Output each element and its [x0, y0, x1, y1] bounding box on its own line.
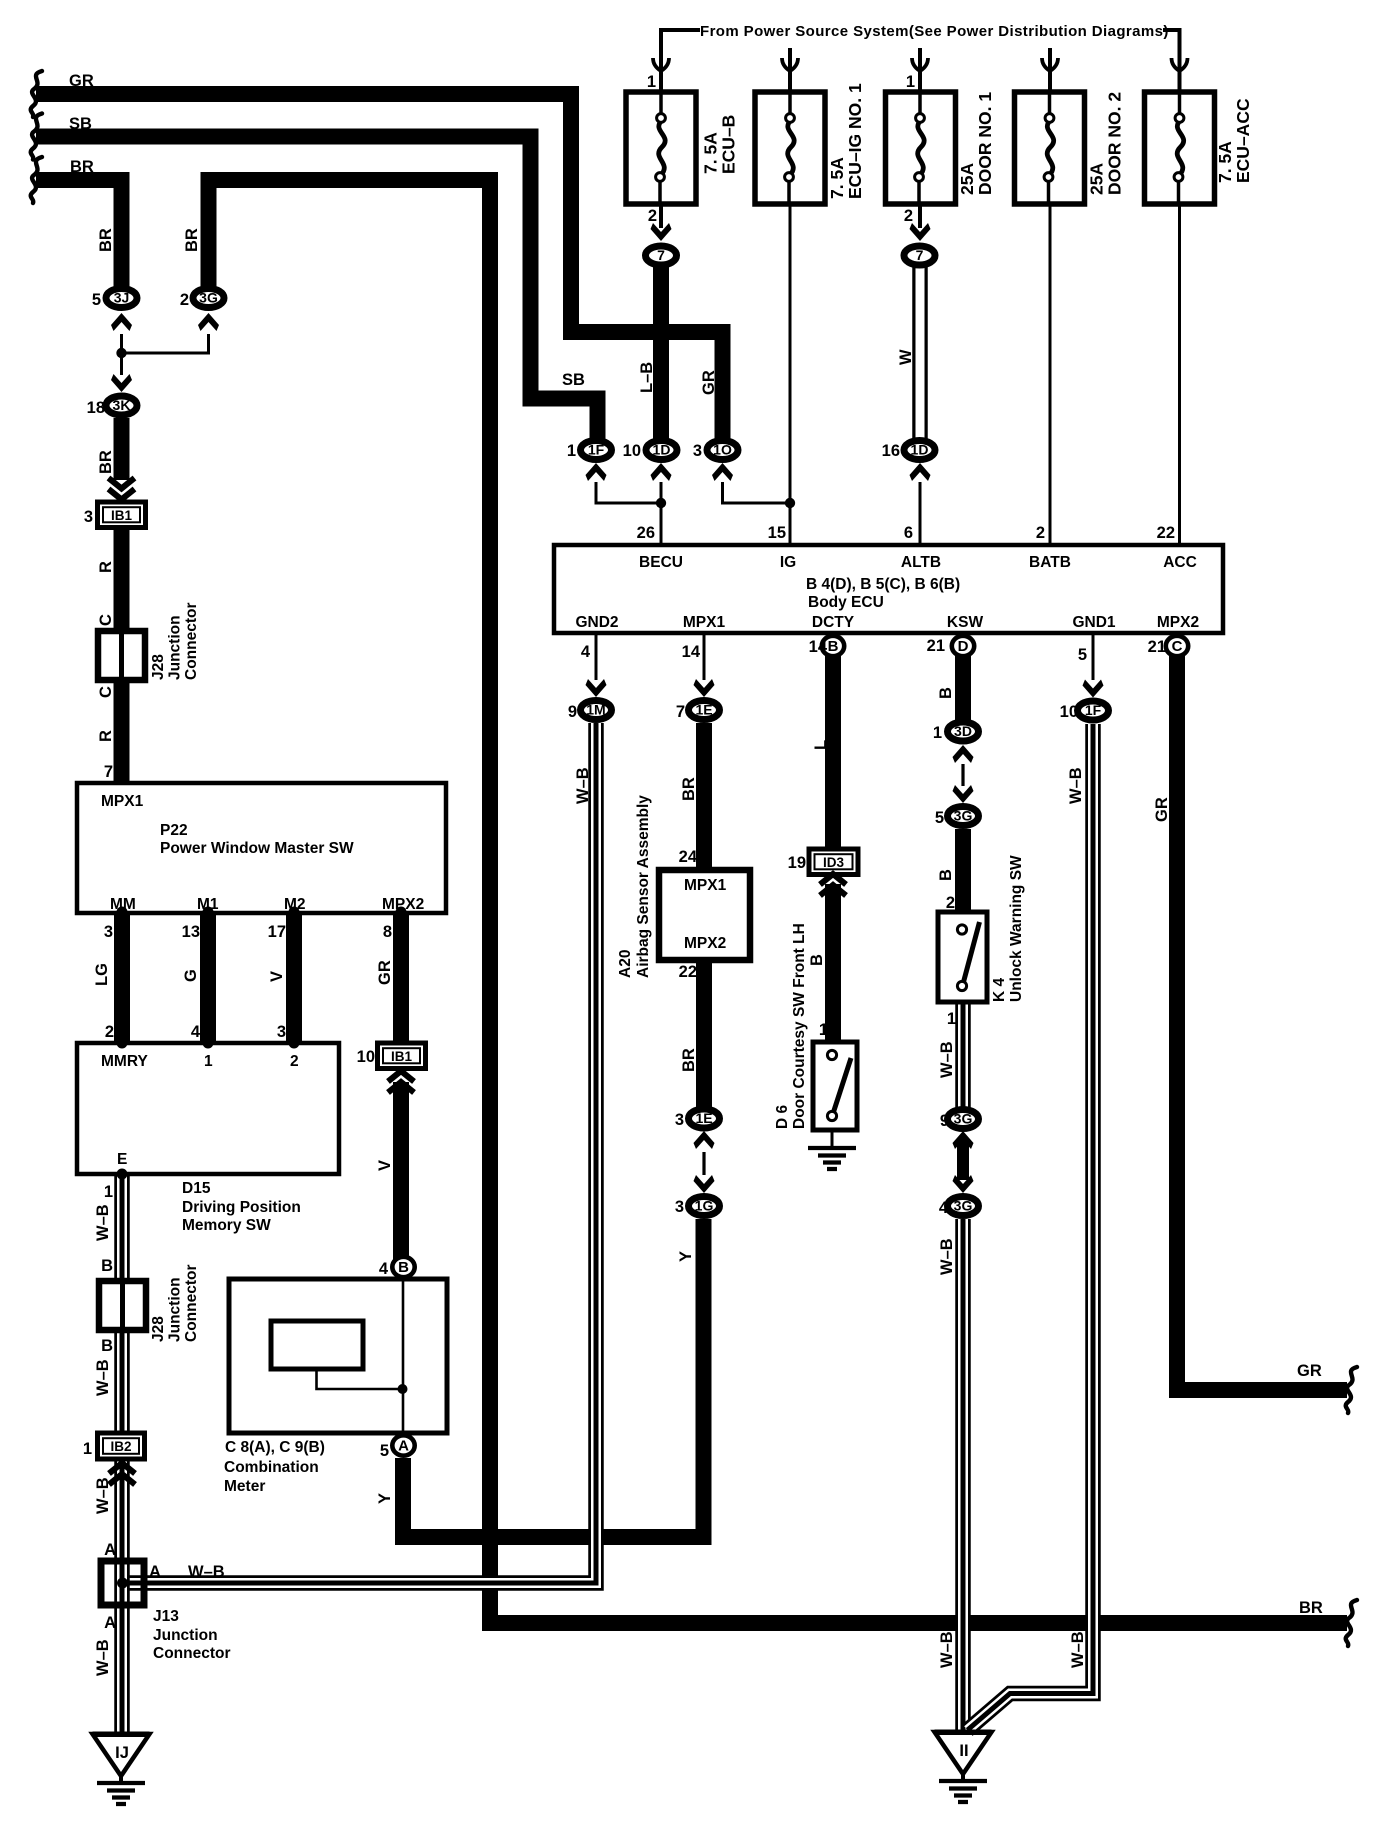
- svg-text:W–B: W–B: [94, 1639, 112, 1676]
- svg-text:1F: 1F: [1085, 702, 1102, 718]
- svg-text:C: C: [1172, 638, 1183, 655]
- svg-text:ID3: ID3: [823, 855, 845, 870]
- svg-text:R: R: [97, 561, 115, 573]
- svg-text:SB: SB: [69, 115, 92, 133]
- svg-text:L–B: L–B: [638, 362, 656, 393]
- arrow into connector 3G: [198, 313, 219, 331]
- connector 1E MPX1: [689, 701, 720, 720]
- svg-text:Combination: Combination: [224, 1459, 319, 1476]
- break symbol BR wire right: [1346, 1600, 1357, 1646]
- svg-text:A: A: [398, 1438, 409, 1455]
- connector 3D: [948, 722, 979, 741]
- svg-text:1D: 1D: [911, 442, 929, 458]
- connector A combination meter pin 5: [392, 1435, 414, 1455]
- arrow into connector 3G pin 4: [953, 1175, 974, 1193]
- wire connector 1E to connector 1G link: [702, 1152, 705, 1175]
- svg-text:5: 5: [92, 291, 101, 309]
- svg-text:B: B: [937, 687, 955, 699]
- svg-text:BR: BR: [70, 158, 94, 176]
- wire fuse DOOR NO.1 input shaft: [918, 48, 922, 92]
- wire V P22 pin M2 to memory SW pin 3: [286, 912, 302, 1043]
- fuse 25A DOOR NO.2: [1015, 92, 1085, 204]
- svg-text:R: R: [97, 730, 115, 742]
- svg-text:22: 22: [679, 963, 697, 981]
- svg-text:W: W: [897, 349, 915, 365]
- arrow into connector 3K: [111, 374, 132, 392]
- wire W-B unlock warning SW pin 1 to connector 3G: [955, 1002, 971, 1110]
- svg-text:B: B: [101, 1257, 113, 1275]
- connector 1M GND2: [581, 701, 612, 720]
- fuse 7.5A ECU-B: [626, 92, 696, 204]
- wire connector 1D to Body ECU pin 26 (BECU): [660, 482, 663, 545]
- svg-text:V: V: [376, 1160, 394, 1171]
- svg-text:26: 26: [637, 524, 655, 542]
- wire GR feed from power source, stepping down to connector 1O: [36, 94, 723, 441]
- svg-text:22: 22: [1157, 524, 1175, 542]
- svg-text:ECU–B: ECU–B: [719, 115, 739, 174]
- svg-text:7: 7: [104, 763, 113, 781]
- svg-text:A: A: [104, 1541, 116, 1559]
- svg-text:Meter: Meter: [224, 1478, 265, 1495]
- svg-text:SB: SB: [562, 371, 585, 389]
- svg-text:4: 4: [939, 1199, 949, 1217]
- svg-text:25A: 25A: [957, 163, 977, 195]
- svg-text:ECU–IG NO. 1: ECU–IG NO. 1: [845, 83, 865, 199]
- svg-text:GR: GR: [700, 370, 718, 395]
- ground IJ: [93, 1734, 150, 1783]
- svg-text:BR: BR: [680, 777, 698, 801]
- svg-text:MPX1: MPX1: [684, 877, 727, 894]
- svg-text:1: 1: [567, 442, 576, 460]
- D15 Driving Position Memory SW box: [77, 1043, 339, 1174]
- svg-text:Junction: Junction: [153, 1627, 218, 1644]
- svg-text:6: 6: [904, 524, 913, 542]
- double chevron arrow out of IB2: [109, 1463, 135, 1485]
- wire fuse ECU-IG NO.1 to Body ECU pin 15 (IG): [789, 204, 792, 545]
- svg-text:3G: 3G: [954, 1111, 973, 1127]
- svg-text:W–B: W–B: [94, 1359, 112, 1396]
- svg-text:18: 18: [87, 399, 105, 417]
- svg-text:3: 3: [104, 923, 113, 941]
- svg-text:MPX2: MPX2: [1157, 614, 1199, 631]
- K4 Unlock Warning SW box: [938, 912, 987, 1002]
- wire inside combination meter vertical: [402, 1279, 405, 1434]
- wire SB feed to connector 1F: [36, 137, 598, 442]
- wire W-B J28 to IB2: [114, 1328, 130, 1435]
- wire Body ECU GND2 pin 4 stub: [595, 633, 598, 680]
- connector 3J: [106, 289, 137, 308]
- arrow into fuse DOOR NO.1: [912, 58, 928, 71]
- svg-text:7: 7: [657, 247, 665, 263]
- svg-text:4: 4: [581, 643, 591, 661]
- svg-text:7: 7: [676, 703, 685, 721]
- ground below door courtesy SW: [808, 1148, 856, 1169]
- svg-text:Connector: Connector: [183, 1265, 200, 1343]
- svg-text:1E: 1E: [695, 702, 712, 718]
- svg-text:25A: 25A: [1087, 163, 1107, 195]
- wire W-B connector 1F down, jog left to ground II: [968, 724, 1094, 1730]
- svg-text:ACC: ACC: [1163, 554, 1197, 571]
- svg-text:Connector: Connector: [183, 603, 200, 681]
- svg-text:3G: 3G: [954, 1198, 973, 1214]
- svg-text:2: 2: [648, 207, 657, 225]
- wire Body ECU GND1 pin 5 stub: [1092, 633, 1095, 680]
- svg-text:J28: J28: [150, 654, 167, 680]
- svg-text:19: 19: [788, 854, 806, 872]
- svg-text:B: B: [808, 954, 826, 966]
- connector 1F GND1: [1078, 701, 1109, 720]
- wire Body ECU MPX1 pin 14 stub: [703, 633, 706, 680]
- svg-text:2: 2: [1036, 524, 1045, 542]
- svg-text:3G: 3G: [954, 808, 973, 824]
- connector IB2: [98, 1433, 145, 1459]
- svg-text:1: 1: [933, 724, 942, 742]
- connector 1G: [689, 1197, 720, 1216]
- svg-text:7. 5A: 7. 5A: [1215, 141, 1235, 183]
- connector 3G KSW: [948, 807, 979, 826]
- svg-text:C: C: [97, 686, 115, 698]
- svg-text:DOOR NO. 2: DOOR NO. 2: [1105, 92, 1125, 195]
- svg-text:D 6: D 6: [774, 1105, 791, 1130]
- arrow fuse ECU-B pin 2 into connector 7: [651, 223, 672, 241]
- wire fuse ECU-ACC input shaft: [1178, 45, 1182, 92]
- wire R IB1 through J28 to P22 pin 7 (MPX1): [114, 528, 130, 784]
- connector 1E below airbag assembly: [689, 1109, 720, 1128]
- svg-text:10: 10: [623, 442, 641, 460]
- svg-text:Connector: Connector: [153, 1645, 231, 1662]
- break symbol GR wire left: [31, 71, 42, 117]
- svg-text:BR: BR: [680, 1048, 698, 1072]
- connector B combination meter pin 4: [392, 1257, 414, 1277]
- svg-text:G: G: [182, 969, 200, 982]
- svg-text:14: 14: [809, 638, 828, 656]
- wire LG P22 pin MM to MMRY pin 2: [114, 912, 130, 1043]
- svg-text:3: 3: [84, 508, 93, 526]
- arrow into connector 1E lower: [694, 1131, 715, 1149]
- wire B connector 3G to unlock warning SW pin 2: [955, 829, 971, 914]
- svg-text:1: 1: [83, 1440, 92, 1458]
- break symbol SB wire left: [31, 114, 42, 160]
- arrow into connector 1G: [694, 1175, 715, 1193]
- svg-text:L: L: [812, 740, 830, 750]
- svg-text:3K: 3K: [113, 397, 131, 413]
- wire BR airbag sensor MPX2 pin 22 to connector 1E: [696, 956, 712, 1109]
- svg-text:16: 16: [882, 442, 900, 460]
- svg-text:Memory SW: Memory SW: [182, 1217, 271, 1234]
- junction connector J28 upper: [98, 631, 145, 680]
- svg-text:MPX2: MPX2: [382, 896, 424, 913]
- connector 7 below fuse ECU-B: [646, 246, 677, 265]
- arrow into fuse ECU-IG NO.1: [782, 58, 798, 71]
- svg-text:3D: 3D: [954, 723, 972, 739]
- svg-text:5: 5: [380, 1442, 389, 1460]
- wire W fuse DOOR NO.1 connector 7 to connector 1D: [912, 262, 928, 441]
- wire fuse ECU-B input shaft: [659, 45, 663, 92]
- svg-text:Airbag Sensor Assembly: Airbag Sensor Assembly: [635, 795, 652, 978]
- svg-text:13: 13: [182, 923, 200, 941]
- svg-text:IJ: IJ: [115, 1744, 129, 1762]
- svg-text:MPX1: MPX1: [101, 793, 144, 810]
- arrow fuse DOOR NO.1 pin 2 into connector 7: [910, 223, 931, 241]
- svg-text:1G: 1G: [695, 1198, 714, 1214]
- svg-text:W–B: W–B: [938, 1238, 956, 1275]
- svg-text:2: 2: [105, 1023, 114, 1041]
- wire node below 1O to IG junction: [723, 482, 791, 503]
- fuse 7.5A ECU-ACC: [1145, 92, 1215, 204]
- wire fuse DOOR NO.2 input shaft: [1048, 48, 1052, 92]
- svg-text:15: 15: [768, 524, 786, 542]
- svg-text:B: B: [101, 1337, 113, 1355]
- svg-text:BATB: BATB: [1029, 554, 1071, 571]
- arrow into connector 1D ALTB: [910, 463, 931, 481]
- wire connector 1D to Body ECU pin 6 (ALTB): [919, 482, 922, 545]
- wire BR connector 1E to airbag sensor MPX1 pin 24: [696, 723, 712, 870]
- svg-text:W–B: W–B: [938, 1041, 956, 1078]
- connector 1F (SB wire): [581, 441, 612, 460]
- svg-text:II: II: [959, 1742, 968, 1760]
- svg-text:21: 21: [927, 637, 945, 655]
- connector IB1 right: [378, 1043, 426, 1069]
- svg-text:A20: A20: [617, 950, 634, 978]
- svg-text:GND1: GND1: [1072, 614, 1115, 631]
- svg-text:IB1: IB1: [391, 1049, 413, 1064]
- svg-text:Junction: Junction: [167, 1277, 184, 1342]
- svg-text:C 8(A), C 9(B): C 8(A), C 9(B): [225, 1439, 325, 1456]
- svg-text:A: A: [149, 1563, 161, 1581]
- svg-text:J28: J28: [150, 1316, 167, 1342]
- fuse 25A DOOR NO.1: [886, 92, 956, 204]
- svg-text:IG: IG: [780, 554, 796, 571]
- break symbol GR wire right: [1346, 1367, 1357, 1413]
- svg-text:17: 17: [268, 923, 286, 941]
- double chevron arrow out of ID3: [820, 874, 846, 896]
- svg-text:14: 14: [682, 643, 701, 661]
- svg-text:W–B: W–B: [1067, 767, 1085, 804]
- arrow into connector 3J: [111, 313, 132, 331]
- wire W-B IB2 through J13 to ground IJ: [114, 1459, 130, 1734]
- arrow into connector 3D: [953, 745, 974, 763]
- svg-text:10: 10: [357, 1048, 375, 1066]
- svg-text:3: 3: [675, 1111, 684, 1129]
- svg-text:1: 1: [104, 1183, 113, 1201]
- connector 1D (L-B wire): [646, 441, 677, 460]
- svg-text:D: D: [958, 638, 969, 655]
- svg-text:3J: 3J: [114, 290, 130, 306]
- svg-text:B: B: [828, 638, 839, 655]
- svg-text:W–B: W–B: [1069, 1631, 1087, 1668]
- svg-text:BR: BR: [97, 450, 115, 474]
- connector B DCTY pin 14: [822, 636, 844, 656]
- svg-text:5: 5: [935, 809, 944, 827]
- arrow into connector 1E: [694, 679, 715, 697]
- svg-text:MPX1: MPX1: [683, 614, 726, 631]
- wire stubs of power source top line: [661, 28, 1180, 50]
- arrow into connector 3G pin 9: [953, 1131, 974, 1149]
- svg-text:GR: GR: [69, 72, 94, 90]
- connector 7 below fuse DOOR NO.1: [904, 246, 935, 265]
- svg-text:2: 2: [946, 894, 955, 912]
- svg-text:W–B: W–B: [94, 1204, 112, 1241]
- svg-text:1: 1: [906, 73, 915, 91]
- svg-text:4: 4: [191, 1023, 201, 1041]
- wire link between 3G connectors: [957, 1140, 969, 1180]
- wire L Body ECU DCTY to ID3: [825, 655, 841, 851]
- svg-text:9: 9: [940, 1112, 949, 1130]
- svg-text:21: 21: [1148, 638, 1166, 656]
- double chevron arrow into IB1: [109, 478, 135, 500]
- svg-text:MMRY: MMRY: [101, 1053, 148, 1070]
- svg-text:GND2: GND2: [575, 614, 618, 631]
- svg-text:D15: D15: [182, 1180, 211, 1197]
- connector 3K: [106, 396, 137, 415]
- svg-text:Junction: Junction: [167, 615, 184, 680]
- svg-text:1D: 1D: [653, 442, 671, 458]
- svg-text:B 4(D), B 5(C), B 6(B): B 4(D), B 5(C), B 6(B): [806, 576, 960, 593]
- wire B Body ECU KSW to connector 3D: [955, 655, 971, 722]
- svg-text:7. 5A: 7. 5A: [701, 132, 721, 174]
- wire GR Body ECU MPX2 to right edge: [1177, 655, 1347, 1390]
- svg-text:GR: GR: [376, 960, 394, 985]
- svg-text:A: A: [104, 1614, 116, 1632]
- wire fuse DOOR NO.2 to Body ECU pin 2 (BATB): [1049, 204, 1052, 545]
- connector C MPX2 pin 21: [1166, 636, 1188, 656]
- wire door courtesy SW to ground: [831, 1130, 834, 1148]
- svg-text:8: 8: [383, 923, 392, 941]
- wire fuse ECU-ACC to Body ECU pin 22 (ACC): [1178, 204, 1181, 545]
- connector 3G pin 4: [948, 1197, 979, 1216]
- wire B ID3 to door courtesy SW pin 1: [825, 884, 841, 1044]
- svg-text:1: 1: [204, 1053, 213, 1070]
- svg-text:4: 4: [379, 1260, 389, 1278]
- svg-text:ALTB: ALTB: [901, 554, 941, 571]
- C8(A) C9(B) combination meter box: [229, 1279, 447, 1433]
- arrow into fuse ECU-ACC: [1172, 58, 1188, 71]
- svg-text:BECU: BECU: [639, 554, 683, 571]
- svg-text:1O: 1O: [713, 442, 732, 458]
- wire L-B fuse ECU-B to connector 1D: [653, 248, 669, 441]
- svg-text:7. 5A: 7. 5A: [827, 157, 847, 199]
- svg-text:B: B: [937, 869, 955, 881]
- svg-text:3: 3: [675, 1198, 684, 1216]
- wire node joining 3J and 3G: [122, 334, 209, 353]
- svg-text:1M: 1M: [586, 702, 605, 718]
- svg-text:KSW: KSW: [947, 614, 984, 631]
- wire fuse DOOR NO.1 pin2 to connector 7: [918, 204, 922, 228]
- connector ID3: [809, 849, 858, 875]
- wire BR feed to connector 3J: [36, 180, 122, 287]
- fuse 7.5A ECU-IG NO.1: [755, 92, 825, 204]
- ground II: [935, 1732, 992, 1781]
- connector D KSW pin 21: [952, 636, 974, 656]
- wire W-B connector 1M down and across to junction connector J13: [117, 723, 596, 1583]
- svg-text:W–B: W–B: [94, 1477, 112, 1514]
- svg-text:BR: BR: [183, 228, 201, 252]
- svg-text:10: 10: [1060, 703, 1078, 721]
- svg-text:W–B: W–B: [188, 1563, 225, 1581]
- connector 3G pin 9: [948, 1110, 979, 1129]
- svg-text:From Power Source System(See P: From Power Source System(See Power Distr…: [700, 23, 1169, 40]
- arrow into connector 3G upper: [953, 785, 974, 803]
- A20 Airbag Sensor Assembly box: [659, 870, 750, 960]
- arrow into connector 1D: [651, 463, 672, 481]
- connector 3G: [193, 289, 224, 308]
- svg-text:3: 3: [693, 442, 702, 460]
- svg-text:1: 1: [819, 1021, 828, 1039]
- svg-text:W–B: W–B: [574, 767, 592, 804]
- svg-text:ECU–ACC: ECU–ACC: [1233, 98, 1253, 183]
- svg-text:24: 24: [679, 848, 698, 866]
- arrow into fuse ECU-B: [653, 58, 669, 71]
- svg-text:J13: J13: [153, 1608, 179, 1625]
- wire Y combination meter pin 5 (A) to connector 1G: [403, 1219, 704, 1537]
- wire node below 1F to BECU junction: [596, 482, 661, 503]
- svg-text:3: 3: [277, 1023, 286, 1041]
- svg-text:GR: GR: [1153, 797, 1171, 822]
- svg-text:BR: BR: [1299, 1599, 1323, 1617]
- D6 Door Courtesy SW Front LH box: [813, 1042, 857, 1130]
- svg-text:IB2: IB2: [110, 1439, 131, 1454]
- wire node to connector 3K: [120, 353, 123, 375]
- junction connector J13: [101, 1561, 144, 1605]
- svg-text:2: 2: [290, 1053, 299, 1070]
- wire G P22 pin M1 to memory SW pin 4: [200, 912, 216, 1043]
- Body ECU box B4(D) B5(C) B6(B): [554, 545, 1223, 633]
- connector IB1 left: [98, 502, 146, 528]
- wire inside combination meter: [317, 1369, 403, 1389]
- svg-text:BR: BR: [97, 228, 115, 252]
- break symbol BR wire left: [31, 157, 42, 203]
- arrow into connector 1F: [586, 463, 607, 481]
- svg-text:1: 1: [647, 73, 656, 91]
- svg-text:M2: M2: [284, 896, 306, 913]
- svg-text:2: 2: [180, 291, 189, 309]
- svg-text:Body ECU: Body ECU: [808, 594, 884, 611]
- svg-text:LG: LG: [93, 963, 111, 986]
- svg-text:Door Courtesy SW Front LH: Door Courtesy SW Front LH: [791, 923, 808, 1129]
- wire W-B connector 3G to ground II: [955, 1219, 971, 1732]
- svg-text:7: 7: [916, 247, 924, 263]
- svg-text:C: C: [97, 614, 115, 626]
- svg-text:1F: 1F: [588, 442, 605, 458]
- svg-text:1: 1: [947, 1010, 956, 1028]
- connector 1D (W wire): [904, 441, 935, 460]
- double chevron arrow out of IB1: [388, 1071, 414, 1093]
- svg-text:P22: P22: [160, 822, 188, 839]
- svg-text:DOOR NO. 1: DOOR NO. 1: [975, 92, 995, 195]
- arrow into connector 1F: [1083, 680, 1104, 698]
- wire connector 3D to connector 3G link: [961, 764, 964, 786]
- svg-text:Power Window Master SW: Power Window Master SW: [160, 840, 354, 857]
- svg-text:V: V: [268, 971, 286, 982]
- svg-text:M1: M1: [197, 896, 219, 913]
- arrow into connector 1O: [712, 463, 733, 481]
- svg-text:MM: MM: [110, 896, 136, 913]
- wire W-B memory SW pin E to J28: [114, 1174, 130, 1283]
- P22 Power Window Master SW box: [77, 783, 446, 913]
- svg-text:MPX2: MPX2: [684, 935, 726, 952]
- svg-text:9: 9: [568, 703, 577, 721]
- combination meter display block: [271, 1321, 363, 1369]
- arrow into fuse DOOR NO.2: [1042, 58, 1058, 71]
- svg-text:Y: Y: [376, 1493, 394, 1504]
- svg-text:Y: Y: [677, 1251, 695, 1262]
- wire V IB1 to combination meter pin 4 (B): [393, 1082, 409, 1261]
- connector 1O (GR wire): [707, 441, 738, 460]
- svg-text:IB1: IB1: [111, 508, 133, 523]
- svg-text:2: 2: [904, 207, 913, 225]
- wire GR P22 pin MPX2 to IB1: [393, 912, 409, 1044]
- wire BR trunk: 3G up, across top, down right of P22, across bottom to right edge: [209, 180, 1348, 1623]
